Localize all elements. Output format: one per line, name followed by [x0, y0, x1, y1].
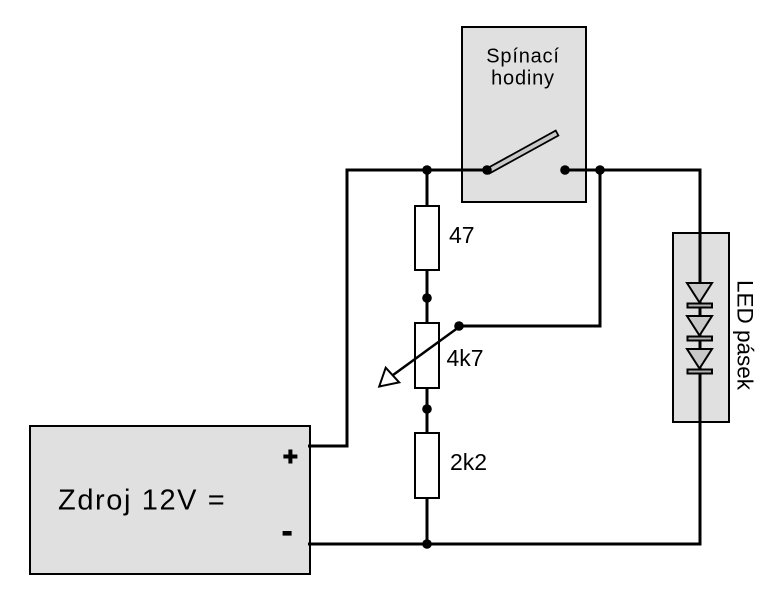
svg-text:47: 47	[449, 222, 475, 248]
pin label: - terminal	[283, 531, 292, 536]
power supply box PS1 (Zdroj 12V)	[30, 426, 310, 574]
wire: resistor chain lead, top rail to R1	[426, 170, 429, 206]
switch S1 lever (open)	[487, 131, 559, 174]
svg-text:hodiny: hodiny	[491, 68, 555, 90]
svg-text:4k7: 4k7	[447, 345, 484, 371]
pin label: + terminal	[283, 450, 297, 464]
junction: pot wiper tap	[454, 321, 464, 331]
wire: LED branch vertical through LED strip	[699, 172, 702, 545]
node: switch right contact	[560, 165, 570, 175]
resistor R1 body	[415, 206, 439, 270]
junction: top rail / wiper riser	[595, 165, 605, 175]
svg-text:Zdroj 12V =: Zdroj 12V =	[58, 485, 226, 517]
wire: wiper horizontal from pot tap to riser	[459, 325, 602, 328]
wire: lead R1 to P1 through junction	[426, 270, 429, 323]
resistor R2 body	[415, 433, 439, 498]
diode D2	[687, 316, 712, 336]
junction: bottom rail / resistor chain	[422, 539, 432, 549]
svg-text:2k2: 2k2	[450, 449, 487, 475]
potentiometer P1 wiper arrow	[391, 327, 459, 377]
wire: lead P1 to R2 through junction	[426, 388, 429, 433]
potentiometer P1 body	[415, 323, 439, 388]
wire: top rail right segment (switch right contact to LED branch corner)	[565, 169, 702, 172]
junction: top rail / resistor chain	[422, 165, 432, 175]
svg-text:Spínací: Spínací	[486, 46, 559, 68]
wire: bottom rail (- net)	[308, 543, 702, 546]
wire: wiper riser from pot net up to top rail	[599, 172, 602, 327]
wire: lead R2 down to bottom rail	[426, 498, 429, 544]
junction: P1 / R2 node	[422, 404, 432, 414]
LED strip box LS1	[673, 233, 729, 422]
node: switch left contact	[482, 165, 492, 175]
wire: top rail left segment (+ rail from left riser to switch left contact)	[346, 169, 488, 172]
junction: R1 / P1 node	[422, 293, 432, 303]
svg-text:LED pásek: LED pásek	[733, 280, 758, 391]
switching clock box U1 (Spinaci hodiny)	[462, 27, 586, 202]
wire: left riser from + terminal up to top rail	[346, 172, 349, 447]
diode D3	[687, 349, 712, 369]
diode D1	[687, 283, 712, 303]
wire: + terminal stub from supply box to left riser	[308, 445, 349, 448]
